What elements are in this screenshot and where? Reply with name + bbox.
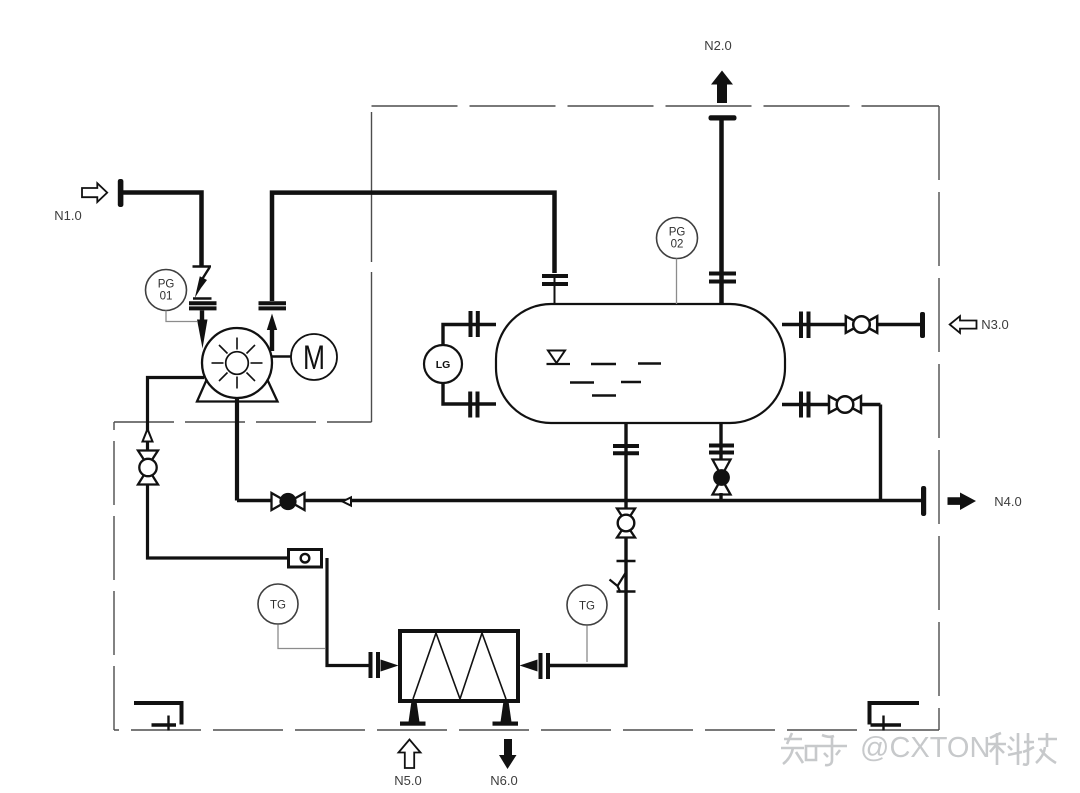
valve globe black vertical (drain): [713, 460, 731, 501]
instrument TG left: [258, 584, 298, 624]
reducer tick lower: [193, 297, 212, 300]
svg-text:TG: TG: [579, 601, 595, 613]
nozzle N2.0 arrow: [711, 71, 733, 104]
nozzle N3.0 arrow: [950, 316, 977, 333]
flange pair vessel top-right nozzle: [709, 274, 736, 282]
wire recirculation line: [148, 378, 289, 559]
flange pair cooler left: [371, 652, 379, 678]
heat exchanger coil zigzag: [413, 633, 506, 699]
instrument LG: [424, 345, 462, 383]
flange pair bottom-right nozzle: [709, 446, 734, 453]
pump impeller spokes: [212, 338, 263, 389]
wire pump drop line: [235, 397, 239, 501]
inlet wedge cooler right: [520, 660, 538, 672]
flange pair right lower nozzle: [801, 392, 809, 418]
wire cooler inlet from sight glass: [327, 558, 369, 666]
flow arrow on N4.0 line: [343, 497, 352, 505]
flange pair LG upper: [471, 311, 478, 337]
valve ball vertical recirculation: [138, 451, 158, 485]
wire LG lower tap: [443, 382, 496, 404]
svg-text:01: 01: [160, 291, 173, 303]
wire drain drop to cooler: [549, 538, 626, 666]
svg-text:TG: TG: [270, 600, 286, 612]
svg-text:LG: LG: [436, 359, 451, 371]
svg-text:M: M: [303, 339, 325, 377]
svg-text:02: 02: [671, 239, 684, 251]
sight glass flow indicator: [289, 550, 322, 568]
valve ball vertical below N4 junction: [617, 509, 635, 538]
flange pair LG lower: [470, 392, 477, 418]
heat exchanger leg left: [409, 701, 420, 722]
svg-text:N3.0: N3.0: [981, 317, 1008, 332]
nozzle N4.0 flange bar: [921, 486, 926, 516]
check flap symbol: [610, 573, 626, 593]
svg-text:N5.0: N5.0: [394, 773, 421, 788]
flange pair vessel top-left nozzle: [542, 276, 568, 284]
nozzle N1.0 arrow: [82, 183, 107, 202]
wire LG upper tap: [443, 325, 496, 347]
flange pair right upper nozzle: [801, 312, 809, 339]
heat exchanger base left: [400, 722, 426, 726]
suction flow arrow into pump: [197, 311, 208, 349]
valve ball N3.0 line: [846, 316, 877, 333]
drain funnel right: [870, 703, 920, 731]
battery limit boundary (dashed): [114, 106, 939, 730]
wire pump to motor: [271, 355, 291, 358]
vessel V-01 shell: [496, 304, 785, 423]
pump baseplate: [197, 380, 278, 402]
watermark zhihu: [781, 733, 847, 765]
svg-text:N2.0: N2.0: [704, 38, 731, 53]
leader line TG right: [586, 626, 588, 663]
nozzle N3.0 flange bar: [920, 312, 925, 338]
nozzle N5.0 arrow: [399, 740, 421, 769]
svg-text:N4.0: N4.0: [994, 494, 1021, 509]
flange pair bottom-left nozzle: [613, 446, 639, 453]
nozzle N6.0 arrow: [499, 739, 517, 769]
svg-text:N1.0: N1.0: [54, 208, 81, 223]
wire discharge riser and top header: [272, 193, 555, 301]
flange pair pump suction: [189, 303, 217, 308]
flange pair pump discharge: [259, 303, 287, 308]
reducer slash: [201, 268, 210, 282]
valve ball black on N4.0 line: [272, 493, 305, 510]
nozzle N2.0 flange bar: [709, 115, 737, 120]
svg-text:@CXTON: @CXTON: [860, 732, 990, 764]
tick upper on drain drop: [617, 560, 636, 562]
instrument TG right: [567, 585, 607, 625]
flange pair cooler right: [541, 653, 549, 679]
leader line PG 02: [676, 259, 678, 305]
vessel level symbol triangle: [547, 351, 571, 365]
instrument PG 01: [146, 270, 187, 311]
wire vessel bottom-right nozzle drop: [719, 422, 722, 462]
reducer tick upper: [193, 265, 212, 268]
nozzle N1.0 flange bar: [118, 179, 124, 207]
motor M: [291, 334, 337, 380]
leader line TG left: [278, 625, 325, 649]
nozzle N4.0 arrow: [948, 493, 977, 511]
leader line PG 01: [166, 311, 197, 322]
tick lower on drain drop: [617, 590, 636, 592]
heat exchanger E-01 shell: [400, 631, 518, 701]
wire N4.0 header: [237, 499, 921, 503]
instrument PG 02: [657, 218, 698, 259]
inlet wedge cooler left: [381, 660, 399, 672]
svg-text:N6.0: N6.0: [490, 773, 517, 788]
wire right lower outlet line: [782, 405, 881, 501]
wire vessel bottom-left nozzle drop: [624, 422, 627, 510]
wire suction pipe from N1.0: [123, 193, 202, 267]
vessel level dashes: [570, 364, 661, 396]
svg-text:PG: PG: [158, 279, 175, 291]
drain funnel left: [134, 703, 182, 731]
valve ball right lower: [829, 396, 861, 413]
heat exchanger leg right: [501, 701, 512, 722]
heat exchanger base right: [493, 722, 519, 726]
wire N3.0 inlet line: [782, 323, 920, 326]
svg-text:PG: PG: [669, 227, 686, 239]
pump P-01 casing: [202, 328, 272, 398]
reducer arrow body: [195, 276, 207, 298]
flow arrow on recirculation riser: [143, 429, 153, 442]
wire N2.0 riser: [719, 120, 724, 305]
discharge flow arrow out of pump: [267, 314, 277, 352]
